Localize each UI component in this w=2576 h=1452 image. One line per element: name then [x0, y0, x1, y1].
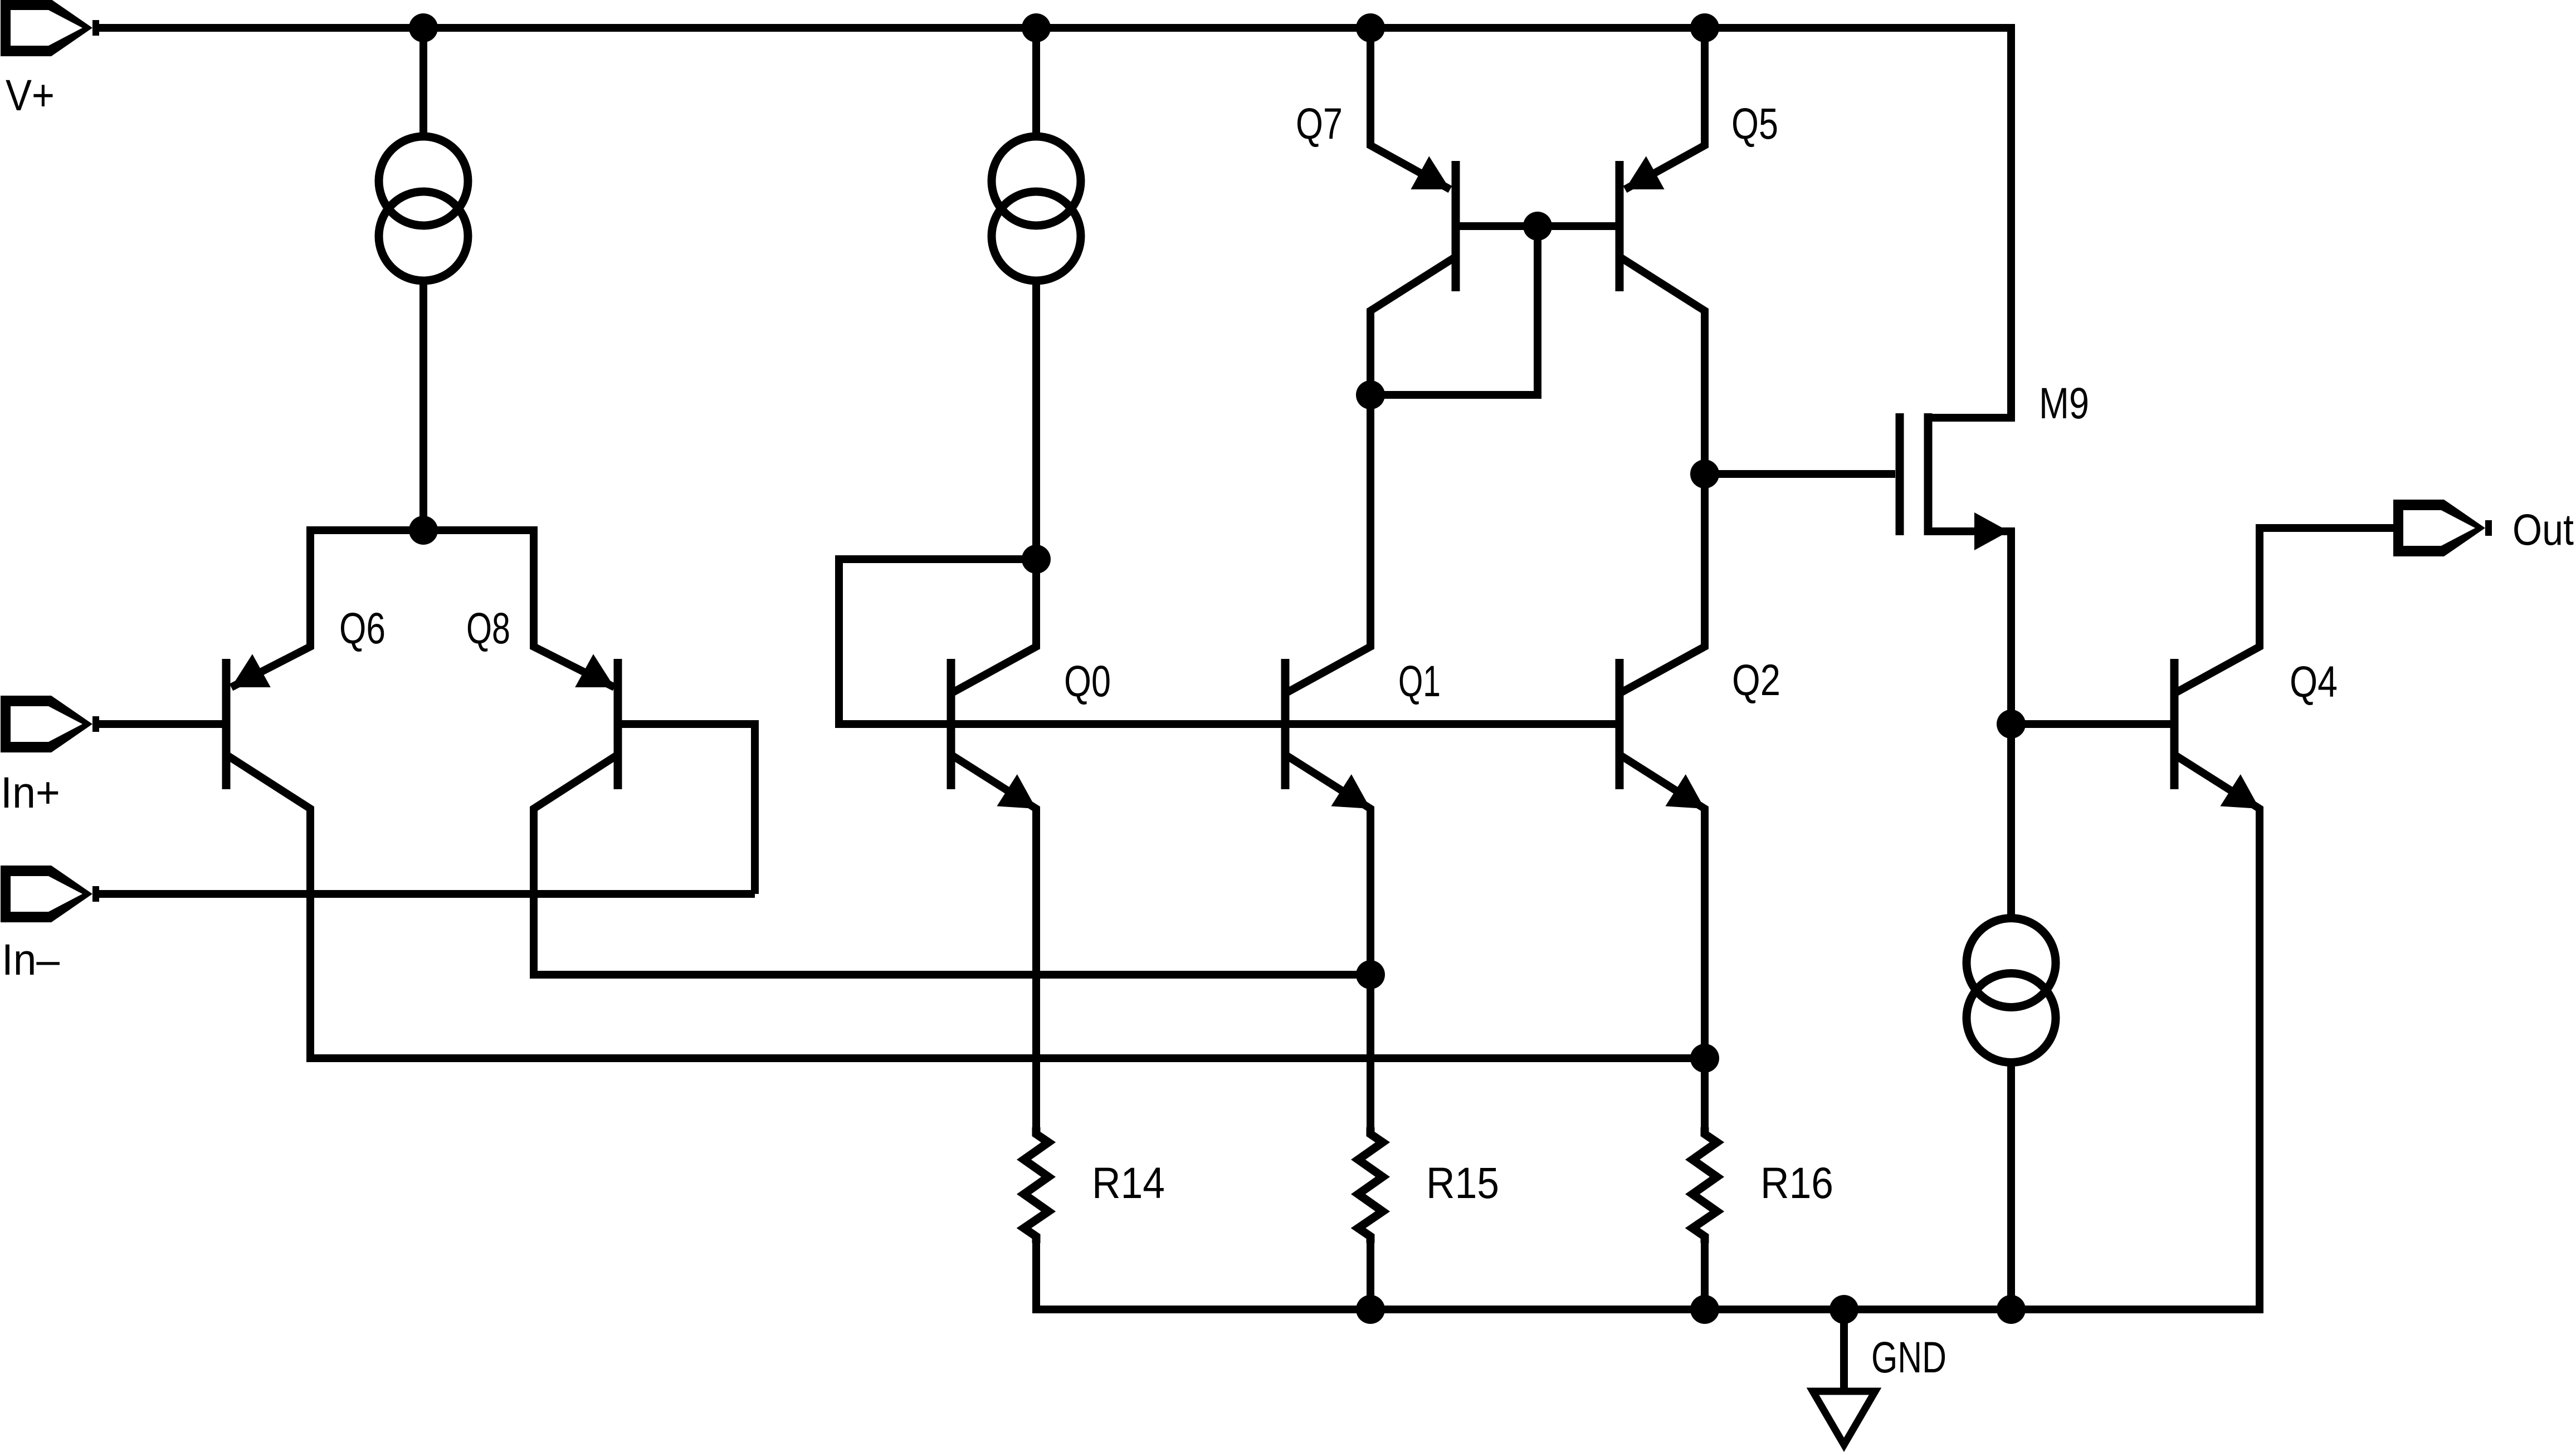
svg-text:In+: In+ [1, 767, 60, 817]
svg-text:In–: In– [2, 935, 60, 984]
svg-text:V+: V+ [6, 70, 55, 120]
svg-text:R14: R14 [1092, 1158, 1165, 1207]
svg-text:R15: R15 [1426, 1158, 1499, 1207]
svg-text:Q4: Q4 [2290, 657, 2338, 706]
svg-text:GND: GND [1871, 1332, 1946, 1382]
svg-text:Q6: Q6 [339, 603, 386, 653]
svg-text:Q8: Q8 [466, 603, 510, 653]
svg-text:Q5: Q5 [1731, 99, 1778, 148]
svg-text:Q1: Q1 [1398, 656, 1441, 706]
svg-text:Out: Out [2512, 505, 2574, 554]
svg-text:Q7: Q7 [1296, 99, 1343, 148]
svg-text:R16: R16 [1760, 1158, 1833, 1207]
svg-text:Q0: Q0 [1064, 656, 1111, 706]
svg-text:M9: M9 [2039, 378, 2089, 428]
svg-text:Q2: Q2 [1732, 655, 1780, 705]
